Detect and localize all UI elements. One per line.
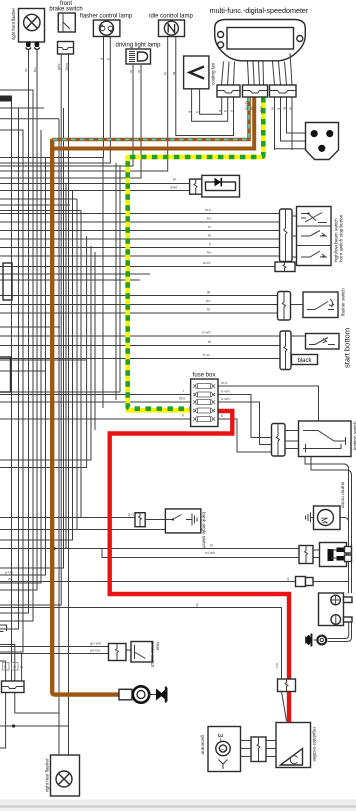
wire h607 to regulator [0,608,282,680]
switch rear brake [109,642,161,668]
switch start button [291,334,339,350]
svg-text:M: M [320,517,329,524]
svg-text:b-wh: b-wh [221,389,230,394]
wire start w3 [0,358,280,360]
svg-text:bank angle switch: bank angle switch [202,512,207,549]
wire battery minus to ground [328,622,349,639]
svg-text:g: g [99,58,104,60]
relay starter [299,543,352,567]
wire cooling-fan pin2 U2 [192,89,228,121]
svg-text:idle control lamp: idle control lamp [149,14,193,20]
lamp driving light [115,43,161,65]
wire h274 [0,273,150,275]
svg-text:brake switch: brake switch [150,642,155,668]
svg-text:rd-wh: rd-wh [205,550,215,555]
lamp idle control [149,14,193,37]
svg-text:w: w [208,224,211,229]
svg-text:ignition switch: ignition switch [353,421,356,450]
svg-text:w: w [270,107,275,110]
wire hl-cluster w3 [0,230,280,232]
svg-text:brake switch: brake switch [49,6,82,12]
switch ignition [299,421,356,457]
switch high-low beam horn stop [292,207,344,266]
wire v120 [0,166,120,392]
wire h726 to flasher [0,725,69,727]
wire speedo right conn to handlebar 1 [275,97,306,149]
wire idle-lamp pin1 down [0,37,168,171]
svg-text:start bottom: start bottom [343,328,352,368]
svg-text:generator: generator [201,735,206,755]
switch front brake [49,1,82,54]
svg-text:bu: bu [207,250,211,255]
wire h371 [0,370,45,372]
wire hl-cluster w4 [0,238,280,240]
svg-text:multi-func.-digital-speedomete: multi-func.-digital-speedometer [210,6,309,15]
connector speedo right block [270,85,297,97]
wire fuse left w2 [0,401,191,403]
wire left conn bottom 1 [0,693,6,749]
wire h360 [0,359,87,361]
wire relay conn to box 1 [313,549,320,551]
wire v45 [0,158,46,576]
wire fuse left w1 [0,394,191,396]
wire front-brake-switch pin2 down [68,54,70,755]
svg-text:w: w [13,664,16,669]
svg-text:regulator-rectifier: regulator-rectifier [312,727,317,762]
wire cooling-fan pin1 U1 [200,89,222,114]
wire v72 [0,191,73,541]
wire left edge v11 [11,102,13,682]
bar left edge top [0,96,12,102]
svg-text:right rear flasher: right rear flasher [45,758,50,792]
wire brown-cyan from speedo [52,97,249,140]
lamp flasher control [80,14,133,37]
wire h199 [0,198,77,200]
svg-text:g-y: g-y [258,106,263,112]
wire left conn pin3 [21,654,23,682]
connector diode [190,179,202,194]
boxes tiny left labels [3,663,10,671]
svg-text:horn switch stop button: horn switch stop button [339,214,344,262]
connector high-low cluster [280,209,293,262]
ground battery ring terminal [306,634,326,647]
switch flasher [291,288,346,318]
wire v86 [0,236,87,468]
wire v91 [0,246,91,460]
box left edge 357 [0,357,11,392]
wire red main [110,411,289,723]
switch handlebar optional [0,120,339,160]
svg-text:bl: bl [208,339,211,344]
svg-text:g: g [287,576,289,581]
svg-text:bl: bl [207,307,210,312]
svg-text:rear: rear [156,642,161,651]
svg-text:bl/s: bl/s [179,396,185,401]
wire v116 [115,163,117,400]
wire relay conn to box 2 [313,557,320,559]
bottom gray strip [0,800,356,811]
svg-text:black: black [297,358,312,364]
svg-text:w: w [136,70,141,73]
svg-text:bl: bl [208,233,211,238]
svg-text:y: y [229,110,234,112]
svg-text:lg: lg [171,72,176,75]
wire idle-lamp pin2 down to U3 [176,37,234,136]
connector start button [280,331,291,370]
svg-text:right front flasher: right front flasher [11,8,16,40]
wire tilt switch feed [0,517,135,519]
wire hl-cluster w6 [0,255,280,257]
svg-text:bu: bu [32,68,37,72]
wire flasher-control pin2 down [0,37,110,163]
wire ignition to battery heavy 2 [311,457,352,594]
svg-text:y-bls: y-bls [5,570,13,575]
svg-text:bu: bu [206,298,210,303]
wire rear brake feed 1 [0,646,109,648]
wire v81 [80,211,82,518]
regulator rectifier [276,723,317,768]
svg-text:ye-bu: ye-bu [90,648,100,653]
wires speedo fanout [222,53,293,85]
connector regulator feed [278,679,296,692]
wire left conn hook 1 [0,661,6,681]
box black label [292,328,352,368]
wire brown main vertical + rear run [52,139,119,695]
wire rear brake feed 2 [0,653,109,655]
svg-text:lg: lg [282,107,287,110]
connector front brake [58,42,74,55]
wire h205 [0,204,70,206]
wire speedo right conn to handlebar 2 [281,97,306,141]
wire speedo right conn to handlebar 3 [287,97,306,133]
fan cooling fan [184,56,216,89]
labels wire tiny [4,57,293,692]
svg-text:bu-br: bu-br [244,100,249,110]
lamp right front flasher [11,8,45,50]
svg-text:bl: bl [163,72,168,75]
wire hl-cluster w7 wbl [0,266,275,268]
svg-text:w-b: w-b [221,380,228,385]
connector speedo middle block [243,85,268,97]
battery [319,593,353,626]
lamp right rear flasher [45,755,80,796]
wire fuse right f3 [218,402,272,445]
svg-text:g-rd: g-rd [128,512,135,517]
svg-text:w: w [288,107,293,110]
wire fuse right f2 [218,395,272,438]
diode assembly [0,175,240,197]
wire relay feed 1 [0,548,299,550]
fuse box [191,373,218,427]
wire hl-cluster w2 [0,221,280,223]
wire fuse left w3 [0,418,191,420]
svg-text:g: g [217,110,222,112]
svg-text:w: w [8,576,11,581]
wire v68 [65,184,67,549]
wire inline fuse feed [0,581,296,583]
svg-text:w: w [128,70,133,73]
marks left edge small [0,625,7,632]
junction dot [12,724,15,727]
speedometer multi-func digital [210,6,309,61]
wire flasher-cluster w2 [0,304,278,306]
svg-text:flasher switch: flasher switch [341,288,346,316]
connector small w-bl [275,262,295,272]
wire left conn hook 2 [0,645,15,682]
wire relay feed 2 [102,549,299,558]
WIRES-COLOR [52,97,289,723]
fuse inline [296,577,314,587]
svg-text:b-w: b-w [203,352,210,357]
box left edge middle [3,263,12,300]
wire h280 [0,279,140,281]
svg-text:w-h: w-h [205,207,211,212]
wire diode feed 1 [0,183,190,185]
svg-text:n-wh: n-wh [202,330,211,335]
wire brown solid from speedo [52,97,254,149]
wire inline fuse to battery lead [313,581,349,583]
connector speedo left block [217,85,240,97]
svg-text:bl/w: bl/w [64,63,69,70]
generator [201,727,241,772]
svg-text:bu: bu [207,216,211,221]
wire v103 [102,158,104,409]
wire v95 [94,252,96,430]
svg-text:g: g [187,111,192,113]
ground brown ring terminal [119,686,168,702]
svg-text:flasher control lamp: flasher control lamp [80,14,133,20]
wire right-front-flasher pin1 down [0,49,29,613]
wire ring to bolt [314,639,318,641]
wire start w2 [0,345,280,347]
wire left edge h108 [0,107,44,109]
wire v59 [58,119,60,713]
wire fuse right f5 [218,419,272,452]
svg-text:g: g [276,108,281,110]
svg-text:w-r: w-r [275,663,280,669]
svg-text:w: w [20,664,23,669]
wire flasher-cluster w3 [0,312,278,314]
wire hl-cluster w5 [0,247,280,249]
wire left edge h118 [0,118,59,120]
svg-text:driving light lamp: driving light lamp [115,43,161,49]
wire fuse right f1 to ignition box top [218,386,319,421]
wire left edge v18 [0,108,19,629]
wire right-front-flasher pin2 down [0,49,37,590]
svg-text:fuse box: fuse box [193,373,216,379]
connector generator [241,737,277,762]
svg-text:G: G [219,749,225,753]
wire v63 [0,108,64,568]
wire front-brake-switch pin1 down [0,54,61,605]
wire driving-light pin1 down [0,65,133,166]
wire h210 [0,210,81,212]
wire left edge h130 [0,130,23,652]
svg-text:y: y [209,241,211,246]
wire yellow-green dashed [128,97,264,410]
wire left edge h90 [0,90,33,621]
wire flasher-cluster w1 [0,295,278,297]
svg-text:starter motor: starter motor [341,482,346,509]
wire left conn bottom 2 to flasher [15,693,59,756]
svg-text:g/bl: g/bl [56,63,61,70]
wire v77 [76,199,78,530]
connector ignition switch [272,424,299,457]
svg-text:cooling fan: cooling fan [211,62,216,85]
switch tilt (bank angle) [135,509,207,549]
wire driving-light pin2 down [0,65,141,178]
wire regulator diag [282,692,287,722]
junction dot 2 [52,547,55,550]
wire starter motor to lead [334,518,349,543]
wire flasher-control pin1 down [0,37,104,158]
connector flasher switch [278,292,291,321]
wire left edge v41 [0,130,41,583]
motor starter [306,482,346,530]
svg-text:b-wh: b-wh [221,396,230,401]
wire h529 [0,529,165,531]
svg-text:g: g [196,602,198,607]
svg-text:bl: bl [173,177,176,182]
wire hl-cluster w1 [0,213,280,215]
connector left edge bottom [2,681,25,693]
wire diode feed 2 [0,190,190,192]
svg-text:w/bl: w/bl [170,185,177,190]
wire battery minus to ground 2 [328,622,352,642]
wire speedo right conn 4 down [275,97,293,150]
svg-text:w-bl: w-bl [203,260,210,265]
wire h335 start w1 [0,335,280,337]
wire h327 [0,326,60,328]
wire ignition to battery heavy 1 [305,457,349,594]
svg-text:gn-wh: gn-wh [90,641,101,646]
